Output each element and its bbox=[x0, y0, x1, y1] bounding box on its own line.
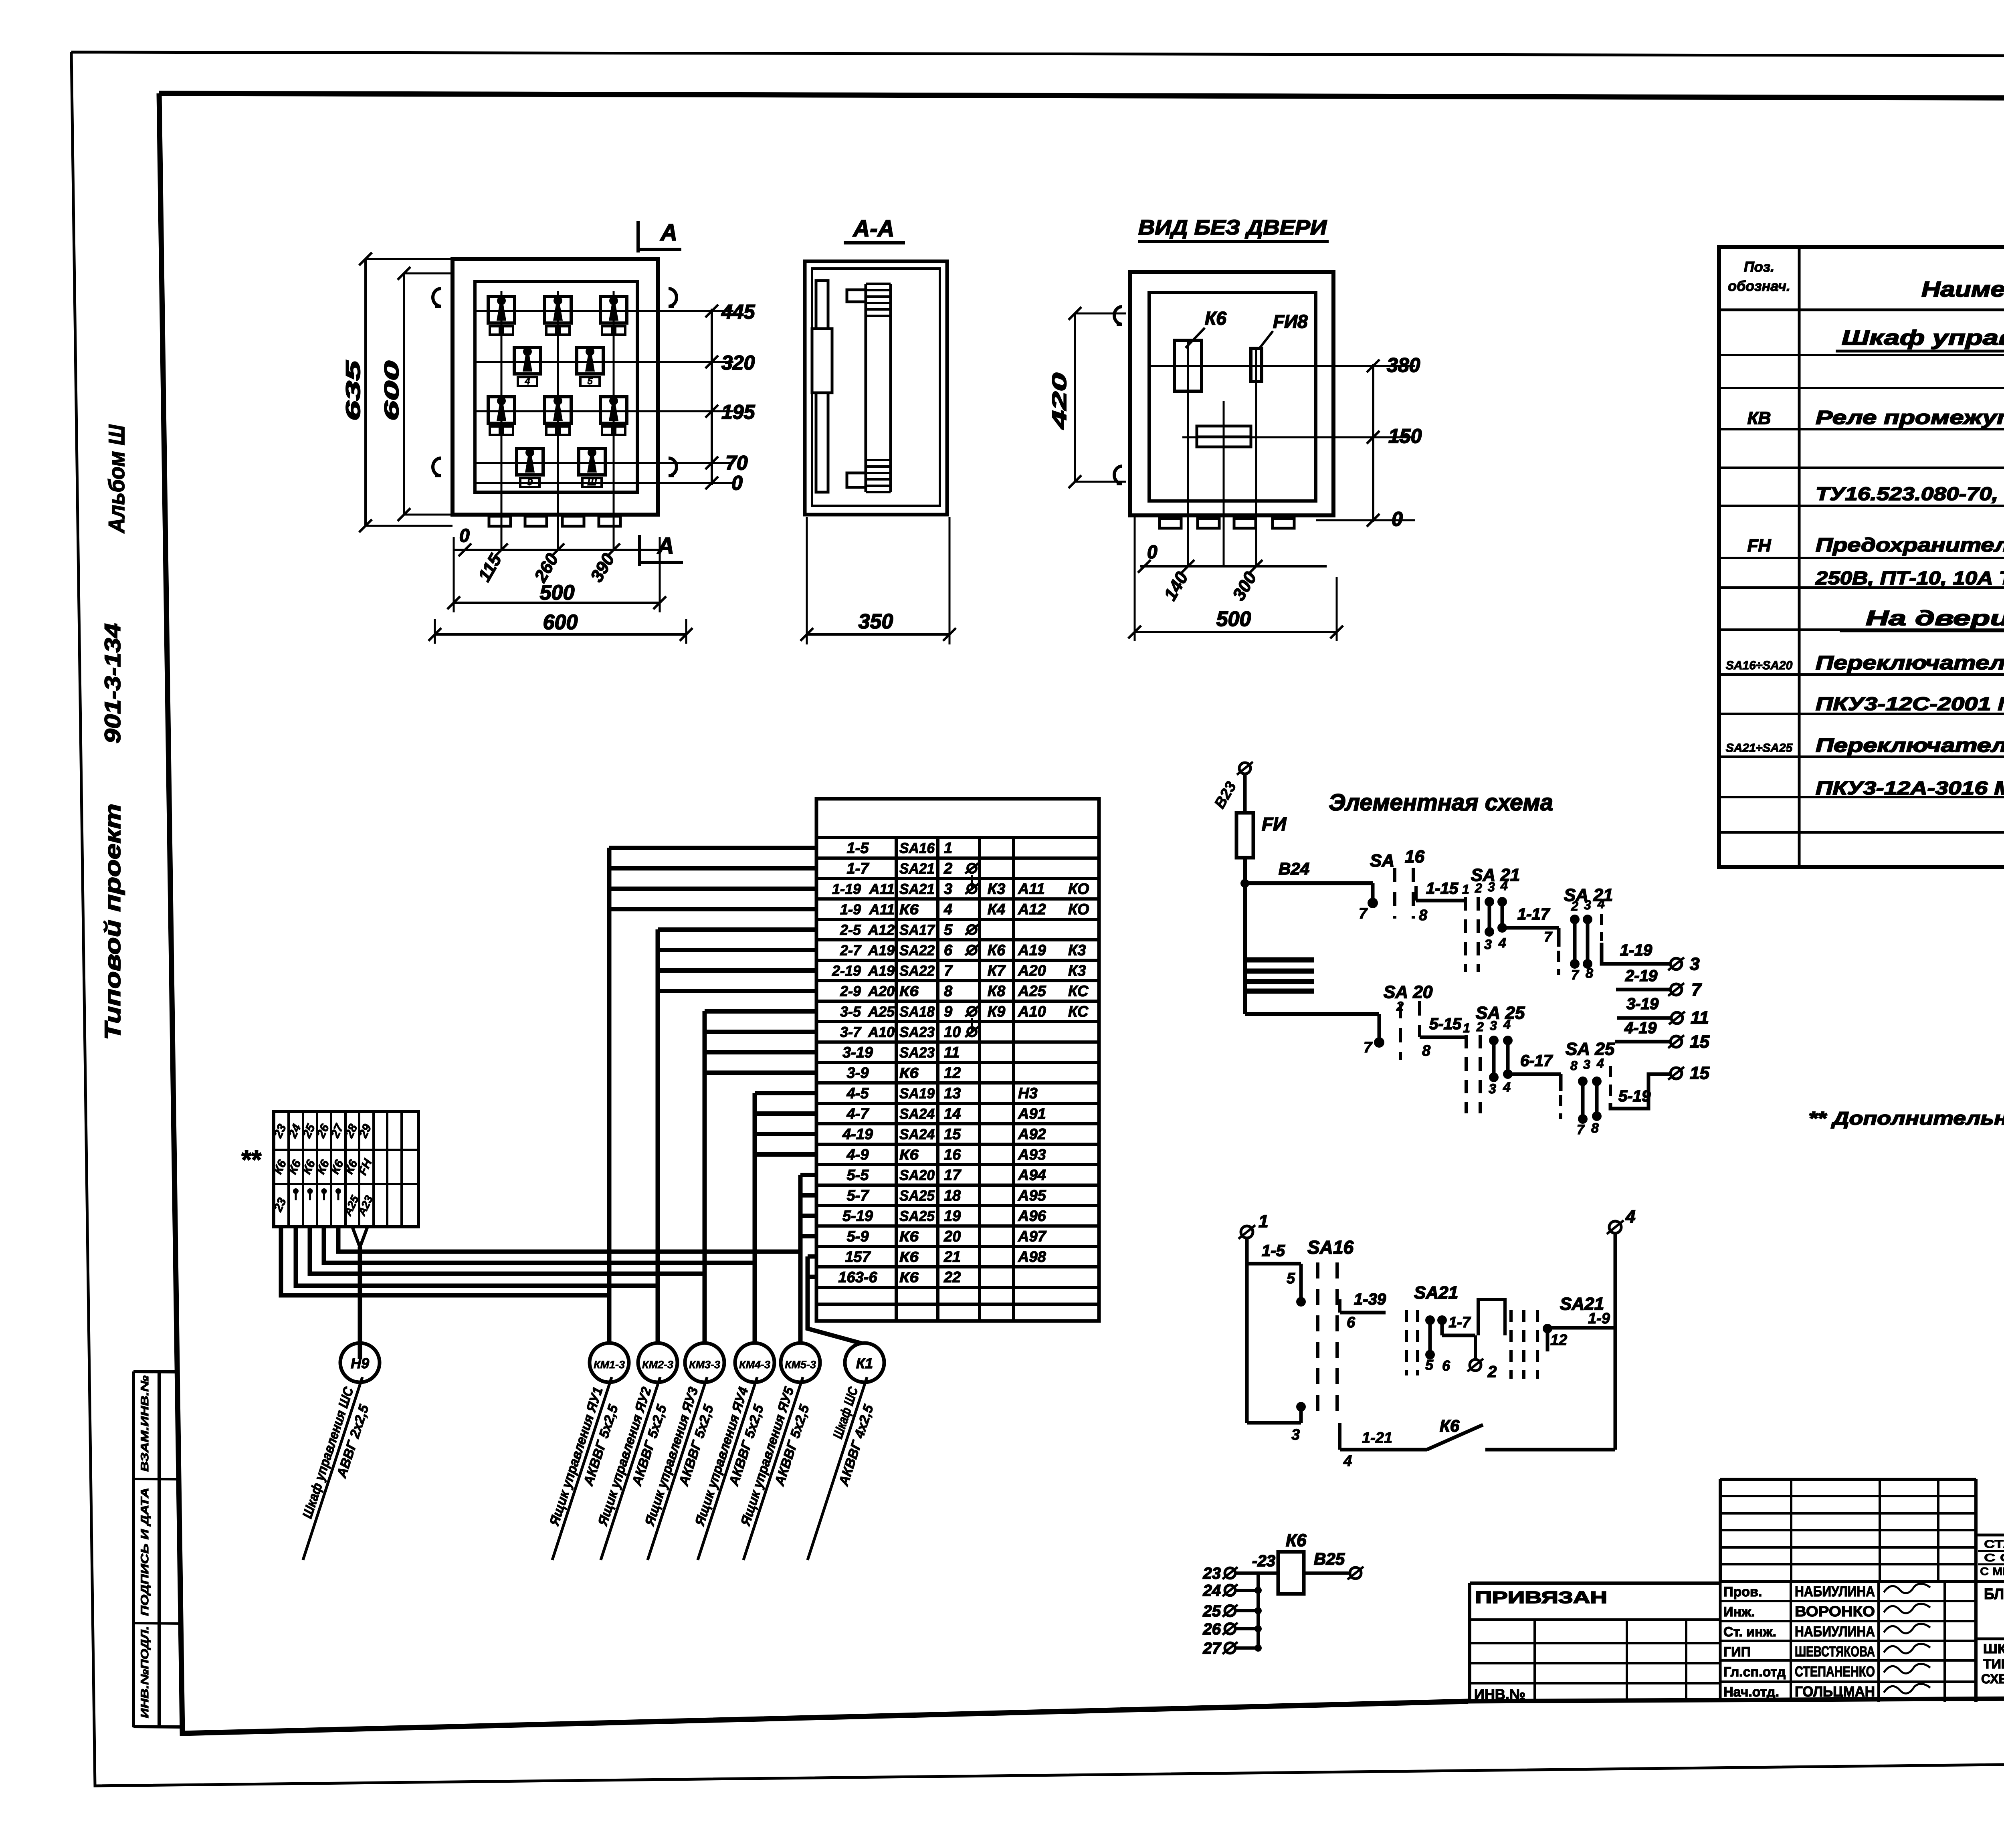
section A-A door handle bbox=[812, 329, 832, 393]
left riser wire bbox=[1245, 1238, 1249, 1423]
view3 cabinet outline bbox=[1130, 272, 1333, 515]
svg-text:А-А: А-А bbox=[852, 216, 894, 242]
svg-text:5: 5 bbox=[1425, 1357, 1434, 1373]
svg-text:К6: К6 bbox=[899, 1228, 919, 1245]
terminal F1 bbox=[1241, 1226, 1253, 1238]
svg-text:Инж.: Инж. bbox=[1723, 1604, 1755, 1620]
front view door panel bbox=[475, 281, 637, 492]
svg-text:635: 635 bbox=[342, 360, 364, 421]
svg-text:FН: FН bbox=[1747, 536, 1772, 555]
svg-text:КС: КС bbox=[1068, 983, 1089, 1000]
section A-A top tab bbox=[847, 290, 866, 302]
right dimension line bbox=[711, 309, 713, 485]
svg-text:12: 12 bbox=[1550, 1332, 1567, 1349]
dimension label 390 bbox=[587, 550, 618, 586]
svg-text:25: 25 bbox=[1203, 1602, 1221, 1620]
svg-text:SA25: SA25 bbox=[899, 1208, 935, 1224]
front view row leader 445 bbox=[475, 310, 733, 312]
dim line 350 bbox=[807, 633, 949, 636]
wire 6-17 bbox=[1508, 1072, 1561, 1076]
inner drawing frame bbox=[159, 93, 2004, 1697]
wire 2-19 to cable bbox=[658, 968, 816, 973]
wire 1-21 and K6 contact bbox=[1338, 1423, 1341, 1450]
title block revision grid bbox=[1720, 1478, 1976, 1481]
cable circle КМ4-3 bbox=[735, 1343, 774, 1382]
svg-text:А91: А91 bbox=[1018, 1106, 1046, 1123]
svg-text:А96: А96 bbox=[1018, 1208, 1046, 1225]
svg-text:А25: А25 bbox=[1018, 983, 1046, 1000]
svg-text:195: 195 bbox=[721, 401, 756, 423]
margin label VZAM INV bbox=[139, 1375, 151, 1472]
bottom dim line 600 bbox=[435, 633, 686, 636]
svg-text:ТИВОПОЖАРНЫМИ НАСОСАМИ М1÷М5: ТИВОПОЖАРНЫМИ НАСОСАМИ М1÷М5 bbox=[1983, 1657, 2004, 1671]
svg-text:SА21: SА21 bbox=[1414, 1283, 1458, 1303]
svg-text:ПРИВЯЗАН: ПРИВЯЗАН bbox=[1475, 1588, 1607, 1607]
svg-text:К6: К6 bbox=[1286, 1531, 1307, 1550]
cable label КМ1-3 bbox=[536, 1372, 629, 1566]
view3 bottom dim line bbox=[1140, 565, 1327, 568]
view3 leader 380 bbox=[1149, 365, 1415, 367]
terminal block wire col2 bbox=[296, 1227, 658, 1286]
svg-text:SA16: SA16 bbox=[899, 840, 935, 856]
wire 5-19 to cable bbox=[800, 1214, 816, 1218]
svg-text:А95: А95 bbox=[1018, 1188, 1046, 1204]
svg-text:SA21: SA21 bbox=[899, 881, 935, 897]
svg-text:А: А bbox=[660, 220, 677, 246]
svg-text:22: 22 bbox=[943, 1269, 961, 1286]
svg-text:8: 8 bbox=[1422, 1042, 1431, 1059]
parts list table outline bbox=[1719, 247, 2004, 867]
section mark A bottom bbox=[638, 535, 641, 566]
section mark A top bbox=[636, 221, 640, 252]
wire 4-19 to terminal 15 bbox=[1615, 1040, 1671, 1044]
svg-text:4-19: 4-19 bbox=[1624, 1019, 1657, 1037]
wire 1-7 to cable bbox=[609, 866, 816, 870]
relay coil K6 bbox=[1278, 1552, 1304, 1594]
wire 3-5 to cable bbox=[705, 1009, 816, 1014]
svg-text:Альбом Ш: Альбом Ш bbox=[104, 424, 129, 534]
wire jog over bbox=[1478, 1299, 1505, 1335]
svg-text:901-3-134: 901-3-134 bbox=[100, 623, 125, 743]
svg-text:7: 7 bbox=[1364, 1039, 1373, 1056]
svg-text:НАБИУЛИНА: НАБИУЛИНА bbox=[1795, 1583, 1875, 1600]
svg-text:К7: К7 bbox=[988, 963, 1006, 980]
svg-text:2: 2 bbox=[943, 860, 952, 877]
view3 leader 0 bbox=[1316, 519, 1415, 521]
svg-text:В25: В25 bbox=[1314, 1549, 1345, 1568]
svg-text:4: 4 bbox=[1343, 1453, 1352, 1470]
svg-text:1-9: 1-9 bbox=[840, 901, 861, 918]
svg-text:16: 16 bbox=[1405, 847, 1424, 866]
svg-text:SA23: SA23 bbox=[899, 1044, 935, 1061]
svg-text:КМ4-3: КМ4-3 bbox=[739, 1359, 770, 1371]
svg-text:**: ** bbox=[240, 1145, 262, 1174]
switch SA16 row1 col1 bbox=[488, 297, 515, 323]
margin stamp table bbox=[132, 1371, 135, 1727]
svg-text:19: 19 bbox=[944, 1208, 961, 1225]
svg-text:А11: А11 bbox=[869, 881, 895, 897]
svg-text:А19: А19 bbox=[1018, 942, 1046, 959]
svg-text:4: 4 bbox=[1596, 1056, 1604, 1070]
svg-text:1-17: 1-17 bbox=[1517, 905, 1550, 923]
wire 1-17 bbox=[1502, 926, 1559, 930]
svg-text:15: 15 bbox=[1690, 1032, 1709, 1052]
dim extension lines view1 bbox=[453, 537, 455, 612]
wire to lamp N9 bbox=[352, 1227, 368, 1247]
wire 5-19 step to terminal 15 bbox=[1610, 1074, 1671, 1109]
svg-text:Гл.сп.отд: Гл.сп.отд bbox=[1723, 1664, 1786, 1680]
left dimension line 635 bbox=[364, 259, 367, 526]
svg-text:SA25: SA25 bbox=[899, 1188, 935, 1204]
node junction bbox=[1240, 879, 1249, 888]
title block signature rows bbox=[1720, 1580, 2004, 1583]
svg-text:4: 4 bbox=[524, 376, 530, 387]
wire 157 to K1 bbox=[808, 1254, 816, 1259]
svg-text:7: 7 bbox=[1577, 1122, 1585, 1137]
terminal F2 bbox=[1474, 1335, 1477, 1359]
svg-text:А92: А92 bbox=[1018, 1126, 1046, 1143]
svg-text:1-21: 1-21 bbox=[1362, 1430, 1392, 1446]
svg-text:ГИП: ГИП bbox=[1723, 1644, 1751, 1660]
svg-text:5-19: 5-19 bbox=[842, 1208, 873, 1225]
svg-text:SA16÷SA20: SA16÷SA20 bbox=[1726, 659, 1793, 672]
view3 dim line 500 bbox=[1135, 631, 1337, 633]
svg-text:5-7: 5-7 bbox=[847, 1188, 870, 1204]
cable riser K1 bbox=[808, 1256, 862, 1343]
svg-text:ВЗАМ.ИНВ.№: ВЗАМ.ИНВ.№ bbox=[139, 1375, 151, 1472]
terminal block bottom row bbox=[271, 1196, 289, 1214]
terminal block wire col1 bbox=[281, 1227, 609, 1295]
dimension label 260 bbox=[530, 550, 562, 586]
svg-text:4-5: 4-5 bbox=[846, 1085, 869, 1102]
svg-text:157: 157 bbox=[845, 1249, 871, 1266]
section A-A cabinet outline bbox=[805, 261, 947, 515]
svg-text:5: 5 bbox=[1287, 1270, 1295, 1287]
wiring table column lines bbox=[895, 838, 898, 1321]
svg-text:А19: А19 bbox=[868, 942, 895, 959]
svg-text:0: 0 bbox=[1147, 541, 1158, 562]
svg-text:600: 600 bbox=[543, 611, 578, 634]
margin text Tipovoy proekt bbox=[100, 804, 125, 1040]
main riser wire bbox=[1243, 858, 1247, 1014]
svg-text:1-15: 1-15 bbox=[1426, 880, 1459, 897]
svg-text:СХЕМА ЭЛЕКТРИЧЕСКАЯ ПРИНЦИПИАЛ: СХЕМА ЭЛЕКТРИЧЕСКАЯ ПРИНЦИПИАЛЬ bbox=[1981, 1672, 2004, 1686]
svg-text:7: 7 bbox=[1544, 929, 1553, 945]
view3 left dim line 420 bbox=[1074, 313, 1076, 482]
svg-text:Ст. инж.: Ст. инж. bbox=[1723, 1624, 1776, 1640]
svg-text:1: 1 bbox=[1463, 1021, 1470, 1035]
section A-A door strip bbox=[816, 281, 828, 492]
svg-text:2: 2 bbox=[1571, 899, 1578, 913]
svg-text:320: 320 bbox=[721, 351, 755, 374]
parts table header line bbox=[1719, 309, 2004, 311]
terminal block top numbers bbox=[271, 1122, 289, 1140]
svg-text:6: 6 bbox=[944, 942, 953, 959]
cable circle КМ5-3 bbox=[781, 1343, 820, 1382]
svg-text:445: 445 bbox=[721, 301, 756, 323]
svg-text:6: 6 bbox=[1347, 1314, 1356, 1331]
wiring table row lines bbox=[816, 836, 1099, 839]
front view row leader 0 bbox=[475, 482, 733, 484]
svg-text:4: 4 bbox=[1597, 897, 1605, 911]
left dim connector top bbox=[366, 258, 453, 260]
svg-text:21: 21 bbox=[943, 1249, 961, 1266]
svg-text:1: 1 bbox=[1259, 1212, 1268, 1231]
svg-text:1-7: 1-7 bbox=[847, 860, 870, 877]
svg-text:2-19: 2-19 bbox=[832, 963, 861, 979]
svg-text:А10: А10 bbox=[868, 1024, 895, 1040]
wire 2-19 to terminal 7 bbox=[1616, 988, 1671, 992]
switch SA21 row3 col1 bbox=[488, 397, 515, 423]
dimension label 115 bbox=[475, 551, 506, 585]
svg-text:А12: А12 bbox=[1018, 901, 1046, 918]
svg-text:К3: К3 bbox=[1068, 942, 1086, 959]
wire 3-7 to cable bbox=[705, 1030, 816, 1034]
svg-text:2: 2 bbox=[1475, 881, 1482, 895]
pривязан box bbox=[1470, 1581, 1720, 1585]
dimension label 300 bbox=[1229, 568, 1261, 604]
svg-text:К6: К6 bbox=[899, 1147, 919, 1163]
svg-text:Н9: Н9 bbox=[351, 1355, 369, 1371]
svg-text:КО: КО bbox=[1068, 881, 1089, 898]
wire 1-15 bbox=[1416, 899, 1465, 903]
relay K6 box bbox=[1174, 340, 1202, 391]
svg-text:СТАНЦИЯ ОЧИСТКИ ВОДЫ ПОВЕРХНОС: СТАНЦИЯ ОЧИСТКИ ВОДЫ ПОВЕРХНОСТНЫХ ИСТОЧ… bbox=[1984, 1538, 2004, 1550]
svg-text:4: 4 bbox=[1625, 1207, 1635, 1226]
left dimension line 600 bbox=[403, 273, 405, 515]
svg-text:К1: К1 bbox=[856, 1355, 873, 1371]
cable label КМ2-3 bbox=[585, 1372, 678, 1566]
view3 lower apparatus box bbox=[1197, 426, 1251, 447]
svg-text:К6: К6 bbox=[1205, 308, 1226, 329]
cable riser KM4-3 bbox=[753, 1093, 757, 1343]
svg-text:ВИД БЕЗ ДВЕРИ: ВИД БЕЗ ДВЕРИ bbox=[1138, 216, 1327, 239]
terminal V23 bbox=[1239, 763, 1250, 774]
wire 3-19 to terminal 11 bbox=[1617, 1016, 1671, 1020]
section A-A bottom tab bbox=[847, 473, 866, 487]
svg-text:4: 4 bbox=[1503, 1017, 1511, 1032]
svg-text:SA21÷SA25: SA21÷SA25 bbox=[1726, 741, 1793, 755]
wire table circle links bbox=[971, 875, 973, 890]
fuse FI bbox=[1236, 813, 1253, 858]
svg-text:А10: А10 bbox=[1018, 1004, 1046, 1020]
svg-text:3-5: 3-5 bbox=[840, 1004, 861, 1020]
svg-text:SA18: SA18 bbox=[899, 1004, 935, 1020]
svg-text:-23: -23 bbox=[1252, 1552, 1275, 1570]
svg-text:2: 2 bbox=[1476, 1020, 1484, 1034]
svg-text:FИ8: FИ8 bbox=[1273, 311, 1308, 332]
svg-text:150: 150 bbox=[1388, 425, 1422, 447]
cable circle КМ1-3 bbox=[590, 1343, 629, 1382]
switch SA22 row3 col2 bbox=[545, 397, 571, 423]
svg-text:3: 3 bbox=[1690, 954, 1699, 974]
svg-text:В24: В24 bbox=[1279, 859, 1309, 878]
switch SA23 row3 col3 bbox=[600, 397, 627, 423]
bottom dim line 115-260-390 bbox=[454, 549, 660, 551]
svg-text:СТЕПАНЕНКО: СТЕПАНЕНКО bbox=[1795, 1663, 1875, 1680]
svg-text:К6: К6 bbox=[988, 942, 1006, 959]
svg-text:3: 3 bbox=[944, 881, 952, 898]
svg-text:ШЕВСТЯКОВА: ШЕВСТЯКОВА bbox=[1795, 1643, 1875, 1660]
svg-text:2-19: 2-19 bbox=[1625, 967, 1658, 985]
svg-text:4-9: 4-9 bbox=[846, 1147, 869, 1163]
dimension label 420 bbox=[1048, 373, 1071, 430]
svg-text:3: 3 bbox=[1489, 1081, 1496, 1097]
bottom dim line 500 bbox=[454, 602, 660, 604]
svg-text:11: 11 bbox=[1691, 1008, 1709, 1028]
svg-text:С СОДЕРЖАНИЕМ ВЗВЕШЕННЫХ ВЕЩЕС: С СОДЕРЖАНИЕМ ВЗВЕШЕННЫХ ВЕЩЕСТВ ДО 700 … bbox=[1984, 1551, 2004, 1564]
wire 1-5 schema bbox=[1247, 1262, 1301, 1266]
switch SA19 row2 col1 bbox=[514, 347, 541, 374]
front view hinge bottom-right bbox=[669, 458, 677, 476]
svg-text:ПКУ3-12А-3016 МРТУ16-526.047-6: ПКУ3-12А-3016 МРТУ16-526.047-67 bbox=[1816, 778, 2004, 798]
front view hinge bottom-left bbox=[433, 458, 441, 476]
svg-text:Элементная схема: Элементная схема bbox=[1329, 790, 1553, 816]
terminal block wire col3 bbox=[310, 1227, 705, 1274]
view3 inner panel bbox=[1149, 293, 1316, 501]
svg-text:КВ: КВ bbox=[1747, 408, 1771, 428]
wire 5-15 bbox=[1420, 1036, 1465, 1039]
wire 1-19 to terminal 3 bbox=[1602, 943, 1671, 964]
dim extension lines A-A bbox=[806, 517, 808, 644]
spare wire stubs bbox=[1245, 957, 1314, 963]
svg-text:К6: К6 bbox=[899, 1065, 919, 1081]
svg-text:1-7: 1-7 bbox=[1448, 1314, 1471, 1331]
dimension label 600 left bbox=[380, 361, 403, 421]
svg-text:420: 420 bbox=[1048, 373, 1071, 430]
svg-text:ШКАФ УПРАВЛЕНИЯ ШУН-6 ХОЗПРО-: ШКАФ УПРАВЛЕНИЯ ШУН-6 ХОЗПРО- bbox=[1983, 1642, 2004, 1656]
svg-text:А93: А93 bbox=[1018, 1147, 1046, 1163]
svg-text:Пров.: Пров. bbox=[1723, 1584, 1762, 1600]
svg-text:НАБИУЛИНА: НАБИУЛИНА bbox=[1795, 1623, 1875, 1640]
svg-text:5-19: 5-19 bbox=[1618, 1087, 1651, 1105]
wire from V23 to fuse bbox=[1243, 774, 1247, 813]
view3 hinge top bbox=[1114, 307, 1122, 324]
svg-text:А11: А11 bbox=[869, 901, 895, 918]
svg-text:Реле промежуточное РПУ-1: Реле промежуточное РПУ-1 bbox=[1816, 407, 2004, 428]
svg-text:SA22: SA22 bbox=[899, 963, 935, 979]
svg-text:15: 15 bbox=[944, 1126, 961, 1143]
svg-text:11: 11 bbox=[944, 1044, 960, 1061]
front view cabinet outline bbox=[453, 259, 658, 515]
svg-text:обознач.: обознач. bbox=[1728, 278, 1790, 294]
svg-text:13: 13 bbox=[944, 1085, 961, 1102]
svg-text:Шкаф управления ШУН: Шкаф управления ШУН bbox=[1842, 326, 2004, 349]
wire 4-19 to cable bbox=[755, 1132, 816, 1136]
svg-text:КМ2-3: КМ2-3 bbox=[642, 1359, 673, 1371]
terminal block middle row K6 FN bbox=[271, 1158, 289, 1176]
svg-text:5-9: 5-9 bbox=[847, 1228, 869, 1245]
svg-text:250В, ПТ-10, 10А ТУ36.1101-: 250В, ПТ-10, 10А ТУ36.1101-71, 2А bbox=[1815, 568, 2004, 588]
cable riser KM2-3 bbox=[656, 929, 660, 1343]
svg-text:163-6: 163-6 bbox=[838, 1269, 877, 1286]
dimension label 635 bbox=[342, 360, 364, 421]
svg-text:SA21: SA21 bbox=[899, 860, 935, 877]
svg-text:SА 25: SА 25 bbox=[1566, 1039, 1615, 1059]
svg-text:А98: А98 bbox=[1018, 1249, 1046, 1266]
svg-text:SA24: SA24 bbox=[899, 1106, 935, 1122]
svg-text:К6: К6 bbox=[899, 1269, 919, 1286]
svg-text:1-5: 1-5 bbox=[1262, 1242, 1285, 1260]
wire 4-9 to cable bbox=[755, 1152, 816, 1157]
wire 3-19 to cable bbox=[705, 1050, 816, 1054]
svg-text:15: 15 bbox=[1690, 1063, 1709, 1083]
switch SA25 row4 col2 bbox=[579, 448, 605, 475]
wire 1-9 schema bbox=[1547, 1326, 1615, 1330]
svg-text:18: 18 bbox=[944, 1188, 961, 1204]
front view feet bbox=[489, 516, 511, 526]
svg-text:Наименование: Наименование bbox=[1921, 277, 2004, 301]
svg-text:0: 0 bbox=[459, 525, 470, 546]
wire 163-6 to K1 bbox=[808, 1275, 816, 1279]
svg-text:4: 4 bbox=[1500, 879, 1508, 893]
wire 1-39 bbox=[1340, 1311, 1386, 1315]
svg-text:4-7: 4-7 bbox=[846, 1106, 870, 1123]
svg-text:К3: К3 bbox=[1068, 963, 1086, 980]
wire 5-9 to cable bbox=[800, 1234, 816, 1238]
cable riser KM1-3 bbox=[607, 848, 612, 1343]
svg-text:24: 24 bbox=[1203, 1582, 1221, 1600]
svg-text:К9: К9 bbox=[988, 1004, 1006, 1020]
svg-text:500: 500 bbox=[1216, 608, 1251, 631]
wire 1-19 to cable bbox=[609, 887, 816, 891]
title block bottom edge bbox=[1468, 1697, 2004, 1701]
cable label КМ3-3 bbox=[632, 1372, 725, 1566]
svg-text:600: 600 bbox=[380, 361, 403, 421]
switch SA24 row4 col1 bbox=[517, 448, 543, 475]
svg-text:5-15: 5-15 bbox=[1429, 1015, 1462, 1033]
svg-text:ПКУ3-12С-2001 МРТУ16-526.047-6: ПКУ3-12С-2001 МРТУ16-526.047-67 bbox=[1816, 693, 2004, 714]
svg-text:SA22: SA22 bbox=[899, 942, 935, 959]
cable riser KM3-3 bbox=[703, 1011, 707, 1343]
title block main area bbox=[1976, 1534, 2004, 1537]
cable circle КМ3-3 bbox=[685, 1343, 724, 1382]
svg-text:ТУ16.523.080-70, ТУ16.10.523.2: ТУ16.523.080-70, ТУ16.10.523.251-70 bbox=[1816, 483, 2004, 504]
svg-text:ВОРОНКО: ВОРОНКО bbox=[1795, 1603, 1875, 1620]
wire 1-9 to cable bbox=[609, 907, 816, 911]
svg-text:7: 7 bbox=[1359, 905, 1368, 922]
coil terminal bus bbox=[1257, 1573, 1260, 1648]
lower schema bottom wire bbox=[1247, 1421, 1301, 1425]
wire 4-5 to cable bbox=[755, 1091, 816, 1095]
svg-text:Переключатель универсальный: Переключатель универсальный bbox=[1816, 735, 2004, 756]
fuse FI8 box bbox=[1251, 348, 1262, 382]
svg-text:27: 27 bbox=[1203, 1640, 1222, 1657]
svg-text:А94: А94 bbox=[1018, 1167, 1046, 1184]
wire V25 from coil bbox=[1304, 1571, 1349, 1575]
margin label INV N PODL bbox=[139, 1626, 151, 1718]
svg-text:А20: А20 bbox=[1018, 963, 1046, 980]
view3 centerlines vertical bbox=[1187, 340, 1189, 566]
svg-text:20: 20 bbox=[943, 1228, 961, 1245]
margin text Album III bbox=[104, 424, 129, 534]
svg-text:7: 7 bbox=[944, 963, 953, 980]
svg-text:380: 380 bbox=[1387, 354, 1420, 376]
view3 feet bbox=[1160, 519, 1181, 528]
wire 3-9 to cable bbox=[705, 1070, 816, 1075]
svg-text:К6: К6 bbox=[1440, 1416, 1460, 1435]
svg-text:SA19: SA19 bbox=[899, 1085, 935, 1102]
svg-text:SA23: SA23 bbox=[899, 1024, 935, 1040]
svg-text:3: 3 bbox=[1583, 1057, 1590, 1072]
front view row leader 320 bbox=[475, 361, 733, 363]
svg-text:А25: А25 bbox=[868, 1004, 895, 1020]
svg-text:8: 8 bbox=[1591, 1121, 1599, 1136]
wire 1-7 schema bbox=[1442, 1334, 1475, 1337]
svg-text:0: 0 bbox=[731, 472, 743, 494]
svg-text:4: 4 bbox=[943, 901, 952, 918]
svg-text:8: 8 bbox=[1419, 907, 1428, 924]
